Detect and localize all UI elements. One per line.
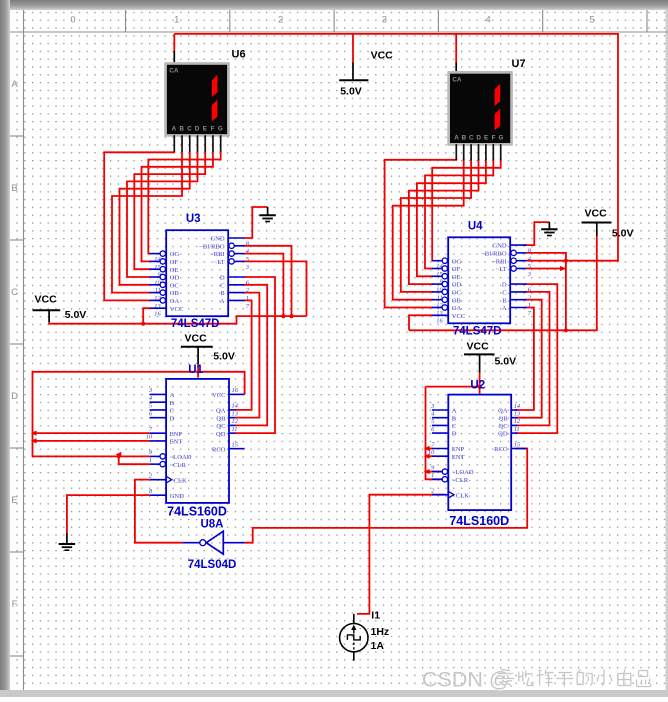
svg-text:A: A	[170, 392, 175, 399]
svg-text:VCC: VCC	[467, 340, 490, 352]
svg-text:1Hz: 1Hz	[371, 626, 390, 638]
svg-text:D: D	[220, 275, 225, 282]
svg-text:16: 16	[232, 387, 239, 394]
svg-text:A: A	[220, 298, 225, 305]
svg-text:13: 13	[514, 411, 520, 418]
svg-text:QC: QC	[499, 423, 509, 430]
svg-text:74LS47D: 74LS47D	[453, 325, 502, 337]
svg-text:G: G	[498, 134, 503, 141]
svg-text:QB: QB	[216, 415, 226, 422]
svg-text:F: F	[12, 599, 18, 610]
svg-text:~LOAD: ~LOAD	[170, 454, 192, 461]
svg-text:CLK: CLK	[456, 492, 469, 499]
svg-text:74LS47D: 74LS47D	[171, 318, 220, 330]
svg-text:~LT: ~LT	[496, 266, 507, 273]
svg-text:OE: OE	[170, 267, 179, 274]
svg-text:D: D	[452, 431, 457, 438]
svg-text:CA: CA	[452, 77, 462, 84]
svg-text:16: 16	[436, 318, 443, 325]
svg-text:1A: 1A	[371, 640, 385, 652]
svg-text:5: 5	[589, 15, 594, 26]
svg-text:VCC: VCC	[185, 333, 208, 345]
svg-text:U8A: U8A	[200, 519, 223, 531]
svg-text:C: C	[502, 290, 507, 297]
svg-text:B: B	[462, 134, 467, 141]
svg-text:74LS160D: 74LS160D	[449, 514, 509, 528]
svg-text:OD: OD	[170, 275, 180, 282]
svg-text:D: D	[11, 391, 18, 402]
svg-text:QB: QB	[499, 415, 509, 422]
svg-text:16: 16	[154, 311, 161, 318]
svg-text:OG: OG	[452, 258, 462, 265]
svg-text:CLK: CLK	[174, 477, 187, 484]
svg-text:A: A	[172, 125, 177, 132]
svg-text:A: A	[11, 79, 18, 90]
svg-text:C: C	[452, 423, 457, 430]
svg-text:OF: OF	[452, 266, 461, 273]
svg-text:ENP: ENP	[452, 446, 465, 453]
svg-text:OA: OA	[452, 305, 462, 312]
svg-text:E: E	[484, 134, 488, 141]
svg-text:74LS04D: 74LS04D	[188, 559, 237, 571]
svg-text:5.0V: 5.0V	[213, 351, 235, 363]
svg-text:~BI/RBO: ~BI/RBO	[199, 243, 225, 250]
svg-text:G: G	[218, 125, 223, 132]
svg-text:5: 5	[431, 418, 434, 425]
svg-text:E: E	[203, 125, 207, 132]
svg-text:15: 15	[514, 441, 520, 448]
svg-text:U4: U4	[468, 220, 483, 232]
svg-text:1: 1	[528, 302, 531, 309]
svg-text:VCC: VCC	[170, 306, 184, 313]
svg-text:12: 12	[232, 418, 239, 425]
svg-text:3: 3	[430, 403, 434, 410]
svg-text:11: 11	[514, 426, 520, 433]
svg-text:5: 5	[246, 256, 249, 263]
svg-text:~LOAD: ~LOAD	[452, 469, 474, 476]
svg-text:U1: U1	[188, 364, 203, 376]
svg-text:VCC: VCC	[35, 294, 58, 306]
svg-text:~CLR: ~CLR	[452, 477, 469, 484]
svg-text:14: 14	[514, 403, 521, 410]
svg-text:ENT: ENT	[452, 454, 465, 461]
svg-text:B: B	[170, 400, 175, 407]
svg-text:C: C	[220, 282, 225, 289]
svg-text:3: 3	[382, 15, 387, 26]
svg-text:D: D	[195, 125, 200, 132]
svg-text:GND: GND	[492, 243, 507, 250]
svg-text:OA: OA	[170, 298, 180, 305]
svg-text:5.0V: 5.0V	[612, 228, 634, 240]
svg-text:QD: QD	[216, 431, 226, 438]
svg-text:A: A	[454, 134, 459, 141]
svg-text:1: 1	[149, 457, 152, 464]
svg-text:B: B	[220, 290, 225, 297]
svg-text:QA: QA	[216, 408, 226, 415]
svg-text:GND: GND	[210, 236, 225, 243]
svg-text:F: F	[211, 125, 215, 132]
svg-text:D: D	[502, 282, 507, 289]
svg-text:5.0V: 5.0V	[495, 356, 517, 368]
svg-text:C: C	[469, 134, 474, 141]
svg-text:3: 3	[245, 264, 249, 271]
svg-text:2: 2	[278, 15, 283, 26]
svg-text:14: 14	[232, 403, 239, 410]
svg-text:A: A	[502, 305, 507, 312]
svg-text:5.0V: 5.0V	[340, 86, 362, 98]
svg-text:1: 1	[431, 472, 434, 479]
svg-text:4: 4	[486, 15, 491, 26]
svg-text:U7: U7	[512, 58, 526, 70]
svg-text:A: A	[452, 408, 457, 415]
svg-text:I1: I1	[371, 610, 380, 622]
svg-text:B: B	[11, 183, 17, 194]
svg-text:E: E	[11, 495, 17, 506]
svg-text:VCC: VCC	[212, 392, 226, 399]
svg-text:5.0V: 5.0V	[65, 309, 87, 321]
svg-text:74LS160D: 74LS160D	[167, 504, 227, 518]
svg-text:11: 11	[232, 426, 238, 433]
svg-text:15: 15	[232, 441, 238, 448]
svg-text:~RBI: ~RBI	[492, 258, 507, 265]
svg-text:OF: OF	[170, 259, 179, 266]
svg-text:GND: GND	[170, 493, 185, 500]
svg-text:VCC: VCC	[371, 50, 394, 62]
svg-text:12: 12	[514, 418, 521, 425]
svg-text:5: 5	[528, 263, 531, 270]
svg-text:13: 13	[232, 410, 238, 417]
svg-text:OC: OC	[170, 282, 180, 289]
svg-text:QD: QD	[498, 431, 508, 438]
svg-text:~LT: ~LT	[214, 259, 225, 266]
svg-text:ENP: ENP	[170, 431, 183, 438]
svg-text:RCO: RCO	[494, 446, 508, 453]
svg-text:10: 10	[428, 449, 435, 456]
svg-text:OB: OB	[452, 297, 462, 304]
svg-text:5: 5	[149, 403, 152, 410]
svg-text:1: 1	[174, 15, 179, 26]
svg-text:C: C	[170, 408, 175, 415]
svg-text:10: 10	[146, 434, 153, 441]
svg-text:OD: OD	[452, 282, 462, 289]
svg-text:U6: U6	[232, 49, 246, 61]
svg-text:F: F	[492, 134, 496, 141]
svg-text:U2: U2	[470, 380, 485, 392]
svg-text:B: B	[502, 297, 507, 304]
svg-text:~CLR: ~CLR	[170, 462, 187, 469]
svg-text:ENT: ENT	[170, 439, 183, 446]
svg-text:0: 0	[70, 15, 75, 26]
svg-text:B: B	[452, 415, 457, 422]
svg-text:CSDN @: CSDN @	[422, 668, 511, 692]
svg-text:D: D	[170, 415, 175, 422]
svg-text:OE: OE	[452, 274, 461, 281]
svg-text:~RBI: ~RBI	[210, 251, 225, 258]
svg-text:RCO: RCO	[212, 446, 226, 453]
svg-text:OC: OC	[452, 290, 462, 297]
svg-text:3: 3	[148, 387, 152, 394]
svg-text:VCC: VCC	[452, 313, 466, 320]
svg-text:QC: QC	[216, 423, 226, 430]
svg-text:~BI/RBO: ~BI/RBO	[481, 251, 507, 258]
svg-text:1: 1	[246, 295, 249, 302]
svg-text:D: D	[476, 134, 481, 141]
svg-text:U3: U3	[186, 213, 201, 225]
svg-text:C: C	[11, 287, 18, 298]
svg-text:C: C	[187, 125, 192, 132]
svg-text:3: 3	[527, 271, 531, 278]
svg-text:OG: OG	[170, 251, 180, 258]
svg-text:QA: QA	[498, 408, 508, 415]
svg-text:VCC: VCC	[585, 208, 608, 220]
svg-text:CA: CA	[169, 68, 179, 75]
svg-text:B: B	[179, 125, 184, 132]
svg-text:OB: OB	[170, 290, 180, 297]
